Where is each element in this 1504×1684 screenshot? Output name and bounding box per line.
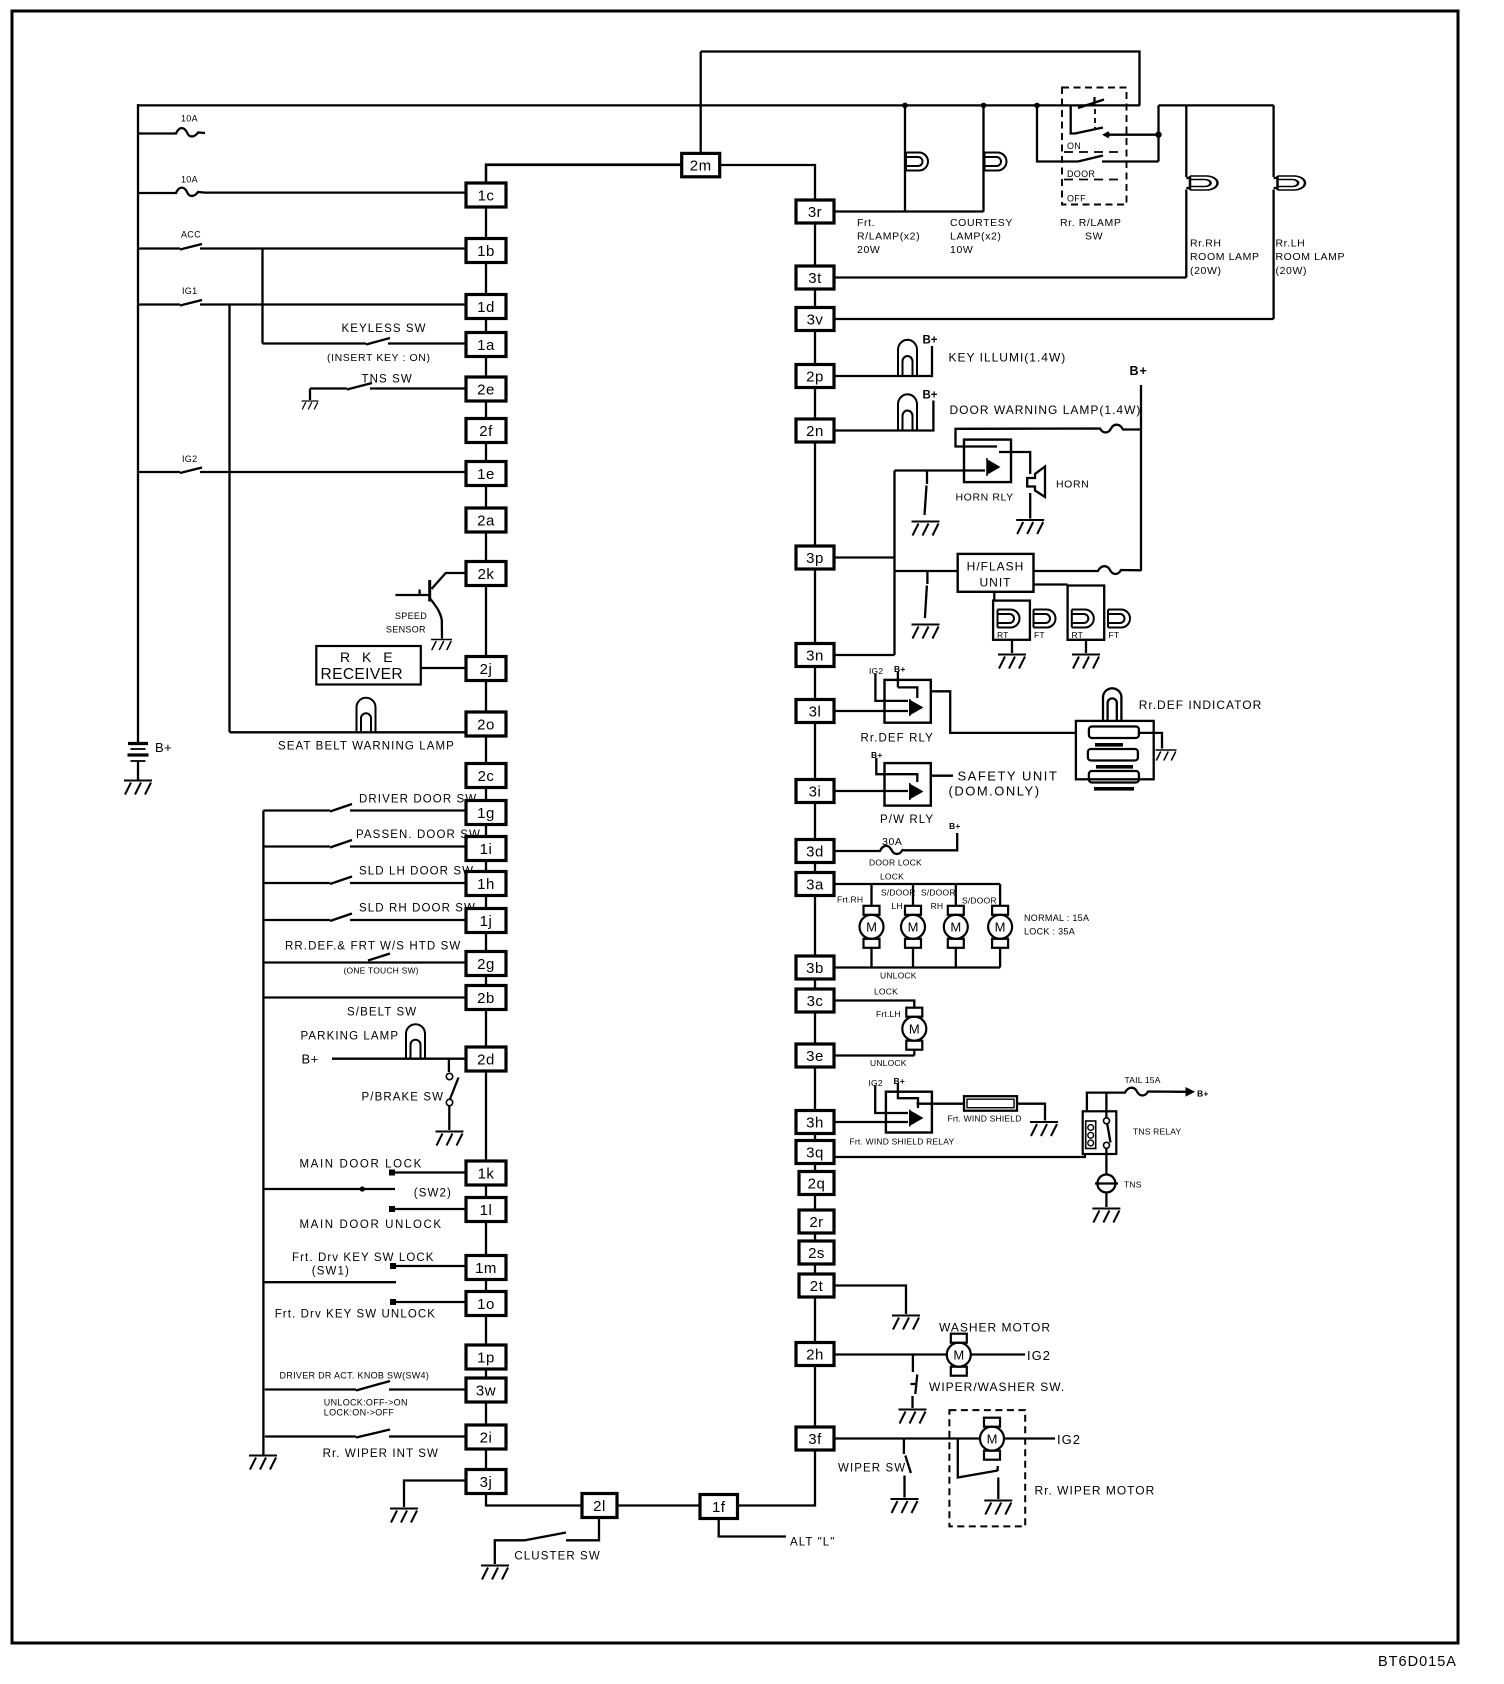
wire: DOOR output: [1102, 160, 1159, 162]
svg-text:20W: 20W: [857, 244, 880, 256]
wire: 3f to wiper motor: [834, 1437, 980, 1439]
svg-text:1f: 1f: [712, 1499, 726, 1516]
wire: H/FLASH feed from riser: [895, 570, 958, 572]
svg-text:LH: LH: [892, 901, 903, 911]
wire: TAIL 15A rail with fuse bump: [1087, 1088, 1186, 1112]
ground (lamp group1): [998, 655, 1026, 669]
svg-text:2d: 2d: [477, 1052, 495, 1069]
Rr.DEF relay coil arrow: [910, 699, 922, 716]
wiper switch: [904, 1439, 911, 1498]
svg-text:Frt. WIND SHIELD: Frt. WIND SHIELD: [948, 1114, 1022, 1124]
connector 3i: [796, 780, 834, 803]
key illumi bulb: [898, 340, 917, 375]
switch blade mid: [1071, 105, 1103, 133]
Rr R/LAMP SW dashed box: [1062, 88, 1127, 205]
wire: horn relay coil feed with fuse bump: [956, 425, 1142, 447]
svg-text:IG1: IG1: [182, 286, 197, 296]
svg-text:3q: 3q: [806, 1145, 824, 1162]
ground (2t): [892, 1316, 920, 1330]
svg-text:1k: 1k: [478, 1166, 495, 1183]
svg-text:MAIN DOOR LOCK: MAIN DOOR LOCK: [300, 1159, 423, 1171]
svg-text:IG2: IG2: [1027, 1348, 1051, 1363]
1o wire: [393, 1301, 466, 1303]
wire: horn to ground: [1029, 493, 1031, 519]
door lock motor Frt.RH: [860, 906, 884, 948]
horn relay U-HORN box: [964, 440, 1011, 483]
wire: 2p key illumi: [834, 346, 932, 376]
junction dot (door feed): [1034, 103, 1040, 109]
connector 1h: [466, 872, 506, 896]
wire: 2m top riser: [700, 52, 702, 154]
svg-text:LOCK : 35A: LOCK : 35A: [1024, 927, 1075, 937]
svg-text:3w: 3w: [476, 1383, 496, 1400]
flasher lamp RT 2: [1072, 610, 1094, 628]
svg-text:TNS SW: TNS SW: [362, 374, 413, 386]
svg-text:HORN: HORN: [1056, 479, 1089, 491]
svg-text:Rr.DEF RLY: Rr.DEF RLY: [861, 733, 934, 745]
svg-text:ON: ON: [1067, 141, 1081, 151]
connector 3f: [796, 1427, 834, 1450]
connector 2c: [466, 764, 506, 788]
connector 3c: [796, 989, 834, 1012]
svg-text:UNLOCK:OFF->ON: UNLOCK:OFF->ON: [324, 1398, 408, 1408]
Rr.LH room lamp: [1278, 176, 1306, 190]
svg-text:1a: 1a: [477, 337, 495, 354]
svg-text:10A: 10A: [181, 114, 198, 124]
svg-text:COURTESY: COURTESY: [950, 217, 1013, 229]
svg-text:3v: 3v: [807, 312, 824, 329]
svg-text:B+: B+: [894, 1076, 906, 1086]
connector 2e: [466, 377, 506, 401]
svg-text:KEY ILLUMI(1.4W): KEY ILLUMI(1.4W): [949, 351, 1067, 365]
svg-text:1o: 1o: [477, 1296, 495, 1313]
wire: bottom loop 3j to 2l to 1f: [486, 1494, 582, 1506]
connector 2k: [466, 562, 506, 586]
wire: lamp feed line right portion: [1159, 104, 1274, 106]
svg-text:3r: 3r: [808, 204, 822, 221]
svg-text:2s: 2s: [808, 1245, 825, 1262]
wire: B+ rail (right): [1140, 385, 1142, 571]
wire: flasher lamp group2 feed: [1034, 583, 1068, 585]
wire: motor to 3e UNLOCK: [834, 1050, 914, 1056]
wire: ON output with arrowhead: [1105, 132, 1159, 137]
door warning bulb: [898, 394, 917, 429]
wire: left door-switch bus: [262, 811, 264, 1456]
wire: 1f down to ALT "L": [719, 1518, 786, 1537]
TNS relay box: [1083, 1111, 1117, 1154]
connector 2m: [682, 153, 720, 176]
svg-text:2f: 2f: [479, 423, 493, 440]
svg-text:SLD RH DOOR SW: SLD RH DOOR SW: [359, 903, 476, 915]
svg-text:2o: 2o: [477, 717, 495, 734]
connector 1k: [466, 1161, 506, 1185]
svg-text:(20W): (20W): [1276, 265, 1308, 277]
svg-text:B+: B+: [923, 335, 938, 347]
connector 1e: [466, 462, 506, 486]
svg-text:LOCK:ON->OFF: LOCK:ON->OFF: [324, 1408, 395, 1418]
svg-text:2m: 2m: [690, 158, 712, 175]
svg-text:PASSEN. DOOR SW: PASSEN. DOOR SW: [356, 829, 481, 841]
RKE receiver box: [316, 646, 421, 685]
wire: 2t to ground: [834, 1286, 906, 1315]
svg-text:1m: 1m: [475, 1260, 497, 1277]
flasher lamp group2 box: [1068, 586, 1105, 640]
dashed detent line DOOR: [1064, 179, 1124, 181]
connector 2r: [799, 1210, 834, 1233]
indicator bar 2: [1088, 749, 1138, 761]
wire: motor drop 2: [912, 884, 914, 906]
svg-text:1l: 1l: [480, 1202, 493, 1219]
svg-text:S/DOOR: S/DOOR: [921, 887, 956, 897]
svg-text:Rr.DEF INDICATOR: Rr.DEF INDICATOR: [1139, 698, 1263, 712]
svg-text:3l: 3l: [809, 704, 822, 721]
1m wire: [393, 1265, 466, 1267]
svg-text:M: M: [908, 920, 919, 935]
wire: B+ lead (WS relay): [898, 1083, 918, 1108]
junction dot (courtesy): [981, 103, 987, 109]
svg-text:DOOR: DOOR: [1067, 169, 1095, 179]
wire: 3q into TNS relay: [834, 1154, 1085, 1157]
switch blade DOOR: [1078, 156, 1103, 162]
dashed detent line ON: [1064, 151, 1124, 153]
wire: 3c LOCK to motor: [834, 1001, 914, 1009]
svg-text:(SW1): (SW1): [312, 1266, 350, 1278]
Frt wind shield heater resistor: [964, 1096, 1017, 1111]
svg-text:M: M: [866, 920, 877, 935]
svg-text:Frt.RH: Frt.RH: [837, 895, 863, 905]
connector 2g: [466, 952, 506, 976]
svg-text:SLD LH DOOR SW: SLD LH DOOR SW: [359, 866, 474, 878]
H/FLASH unit box: [958, 554, 1034, 592]
Rr wiper motor dashed box: [949, 1410, 1025, 1526]
svg-text:RECEIVER: RECEIVER: [321, 666, 403, 683]
horn switch: [925, 471, 928, 516]
ground (wiper/washer sw): [899, 1410, 927, 1424]
svg-text:M: M: [995, 920, 1006, 935]
svg-text:2c: 2c: [478, 768, 495, 785]
TNS relay coil: [1086, 1121, 1096, 1149]
svg-text:IG2: IG2: [1057, 1432, 1081, 1447]
wire: IG1 branch down to seat-belt row: [228, 305, 230, 733]
WS relay coil arrow: [910, 1110, 922, 1127]
wire: 2h to washer motor: [834, 1353, 946, 1355]
wire: 3l into relay: [834, 710, 908, 712]
2i wire + Rr wiper int switch: [265, 1430, 466, 1438]
door lock motor S/DOOR: [988, 906, 1012, 948]
fuse IG2: [138, 468, 466, 474]
horn relay coil arrow: [987, 458, 999, 476]
Frt wind shield relay box: [886, 1092, 932, 1133]
seat belt warning lamp wire: [230, 731, 467, 733]
svg-text:3e: 3e: [806, 1048, 824, 1065]
wire: wiper motor to IG2: [1005, 1437, 1056, 1439]
svg-text:UNLOCK: UNLOCK: [870, 1058, 907, 1068]
flasher lamp group1 box: [993, 601, 1030, 640]
Frt R/LAMP lamp: [906, 153, 928, 171]
svg-text:3a: 3a: [806, 877, 824, 894]
connector 1i: [466, 837, 506, 861]
ground (P/BRAKE SW): [436, 1132, 464, 1146]
TNS relay contact: [1104, 1118, 1110, 1124]
wire: Rr.LH room lamp drop + 3v wire: [834, 105, 1274, 319]
ground (TNS lamp): [1092, 1209, 1120, 1223]
switch blade ON (crossing feed line): [1078, 97, 1104, 108]
svg-text:OFF: OFF: [1067, 194, 1086, 204]
ground (battery): [124, 781, 152, 795]
svg-text:2i: 2i: [480, 1430, 493, 1447]
wire: TNS lamp to ground: [1105, 1193, 1107, 1208]
connector 1l: [466, 1198, 506, 1222]
svg-text:RR.DEF.& FRT W/S HTD SW: RR.DEF.& FRT W/S HTD SW: [285, 941, 461, 953]
flasher lamp RT 1: [998, 610, 1020, 628]
connector 3b: [796, 956, 834, 979]
wire: flasher lamp group1 feed: [993, 592, 995, 601]
ground (flasher switch): [912, 625, 940, 639]
junction square 1m: [390, 1263, 396, 1269]
svg-text:LOCK: LOCK: [874, 987, 898, 997]
fuse ACC: [138, 244, 466, 250]
wire: group2 ground stub: [1085, 640, 1087, 653]
svg-text:3p: 3p: [806, 550, 824, 567]
svg-text:PARKING LAMP: PARKING LAMP: [301, 1031, 400, 1043]
junction dot (switch output): [1155, 132, 1161, 138]
svg-text:HORN RLY: HORN RLY: [956, 492, 1014, 504]
indicator label smudge 2: [1096, 765, 1133, 769]
TNS lamp: [1097, 1175, 1115, 1193]
connector 2n: [796, 419, 834, 442]
svg-text:FT: FT: [1034, 630, 1045, 640]
connector 1m: [466, 1256, 506, 1280]
svg-text:Frt. Drv KEY SW UNLOCK: Frt. Drv KEY SW UNLOCK: [275, 1309, 436, 1321]
keyless SW wire + switch: [263, 338, 467, 345]
svg-text:P/BRAKE SW: P/BRAKE SW: [362, 1092, 445, 1104]
connector 2i: [466, 1425, 506, 1449]
svg-text:2q: 2q: [808, 1176, 826, 1193]
3j wire to ground: [404, 1481, 466, 1508]
B+ bus wire (left vertical): [137, 104, 139, 743]
fuse 10A (row 1): [138, 128, 205, 136]
svg-text:IG2: IG2: [869, 666, 883, 676]
svg-text:BT6D015A: BT6D015A: [1378, 1654, 1457, 1670]
svg-text:Rr. WIPER INT SW: Rr. WIPER INT SW: [323, 1448, 439, 1460]
svg-text:3j: 3j: [480, 1474, 493, 1491]
wire: 2n door warning lamp: [834, 401, 933, 431]
svg-text:(ONE TOUCH SW): (ONE TOUCH SW): [344, 966, 419, 976]
washer motor: [947, 1334, 971, 1376]
svg-text:B+: B+: [155, 740, 172, 755]
wire: 3n stub: [834, 654, 895, 656]
svg-text:2n: 2n: [806, 423, 824, 440]
connector 2s: [799, 1241, 834, 1264]
svg-text:KEYLESS SW: KEYLESS SW: [342, 323, 427, 335]
wire: top loop line: [701, 52, 1140, 106]
fuse IG1: [138, 300, 466, 306]
svg-text:1p: 1p: [477, 1350, 495, 1367]
svg-text:SW: SW: [1085, 231, 1103, 243]
SLD LH door SW wire: [263, 877, 466, 885]
indicator bulb: [1103, 688, 1121, 721]
connector 1j: [466, 909, 506, 933]
indicator label smudge 3: [1094, 787, 1134, 791]
svg-text:1d: 1d: [477, 299, 495, 316]
1l wire: [392, 1208, 466, 1210]
svg-text:DOOR WARNING LAMP(1.4W): DOOR WARNING LAMP(1.4W): [950, 403, 1142, 417]
svg-text:3n: 3n: [806, 648, 824, 665]
svg-text:Rr. WIPER MOTOR: Rr. WIPER MOTOR: [1035, 1484, 1156, 1498]
ground (heater): [1030, 1122, 1058, 1136]
svg-text:1c: 1c: [478, 188, 495, 205]
svg-text:B+: B+: [871, 750, 883, 760]
parking lamp / 2d wire: [332, 1058, 466, 1060]
ground (indicator): [1156, 750, 1177, 761]
svg-text:P/W RLY: P/W RLY: [880, 814, 934, 826]
connector 3q: [796, 1141, 834, 1164]
svg-text:S/DOOR: S/DOOR: [962, 895, 997, 905]
wire: (SW2) row: [263, 1188, 395, 1190]
ground (horn switch): [912, 522, 940, 536]
B+ arrowhead: [1186, 1088, 1194, 1096]
wire: contact to TNS lamp: [1105, 1148, 1107, 1174]
lamp lead stubs Rr.LH: [1274, 178, 1278, 188]
svg-text:R K E: R K E: [340, 649, 397, 665]
indicator bar 1: [1089, 727, 1139, 739]
svg-text:S/BELT SW: S/BELT SW: [347, 1007, 417, 1019]
svg-text:B+: B+: [1197, 1089, 1209, 1099]
flasher switch: [925, 571, 928, 618]
svg-text:2e: 2e: [477, 382, 495, 399]
wire: 3h into relay: [834, 1121, 908, 1123]
svg-text:TAIL 15A: TAIL 15A: [1125, 1075, 1161, 1085]
cluster SW wire: [495, 1517, 599, 1564]
svg-text:2l: 2l: [593, 1498, 606, 1515]
svg-text:RT: RT: [1072, 630, 1084, 640]
connector 3t: [796, 266, 834, 289]
ground (cluster SW): [481, 1566, 509, 1580]
ground (speed sensor): [431, 640, 452, 651]
svg-text:IG2: IG2: [182, 454, 197, 464]
flasher lamp FT 2: [1108, 610, 1130, 628]
svg-text:Rr.RH: Rr.RH: [1190, 238, 1222, 250]
svg-text:TNS RELAY: TNS RELAY: [1133, 1127, 1182, 1137]
connector 3j: [466, 1470, 506, 1494]
connector 1o: [466, 1292, 506, 1316]
wire: B+ lead (P/W): [876, 758, 917, 782]
connector 1b: [466, 239, 506, 263]
ground (TNS SW): [302, 401, 319, 409]
connector 3p: [796, 546, 834, 569]
battery B+: [128, 742, 148, 745]
wire: horn relay contact to horn: [999, 452, 1030, 474]
connector 2l: [582, 1494, 617, 1518]
svg-text:2t: 2t: [810, 1278, 824, 1295]
wire: ACC branch down to keyless: [261, 249, 263, 344]
svg-text:2j: 2j: [480, 661, 493, 678]
svg-text:WIPER SW: WIPER SW: [838, 1463, 906, 1475]
svg-text:ROOM LAMP: ROOM LAMP: [1190, 251, 1260, 263]
svg-text:ALT "L": ALT "L": [790, 1537, 836, 1549]
connector 3e: [796, 1044, 834, 1067]
ground (horn): [1016, 520, 1044, 534]
junction square 1l: [389, 1206, 395, 1212]
svg-text:3i: 3i: [809, 784, 822, 801]
horn speaker: [1027, 467, 1045, 498]
RR.DEF & FRT W/S HTD SW wire (one touch): [263, 954, 466, 963]
svg-text:30A: 30A: [882, 836, 902, 848]
1k wire: [392, 1171, 466, 1173]
wire: 2m to 1c column: [486, 165, 682, 184]
svg-text:LAMP(x2): LAMP(x2): [950, 231, 1001, 243]
connector 2f: [466, 419, 506, 443]
svg-text:SAFETY UNIT: SAFETY UNIT: [958, 769, 1059, 784]
wire: motor drop 1: [870, 884, 872, 906]
svg-text:SEAT BELT WARNING LAMP: SEAT BELT WARNING LAMP: [278, 741, 455, 753]
courtesy lamp: [985, 153, 1007, 171]
svg-text:(DOM.ONLY): (DOM.ONLY): [949, 784, 1041, 799]
svg-text:B+: B+: [949, 821, 961, 831]
svg-text:2h: 2h: [806, 1347, 824, 1364]
svg-text:ROOM LAMP: ROOM LAMP: [1276, 251, 1346, 263]
svg-text:LOCK: LOCK: [880, 872, 904, 882]
wire: top feed line to right (net from bus top): [138, 104, 1140, 106]
flasher lamp FT 1: [1034, 610, 1056, 628]
svg-text:SPEED: SPEED: [395, 611, 427, 621]
connector 3a: [796, 873, 834, 896]
svg-text:ACC: ACC: [181, 230, 201, 240]
svg-text:3t: 3t: [808, 270, 822, 287]
svg-text:2g: 2g: [477, 956, 495, 973]
Rr wiper motor: [980, 1418, 1004, 1460]
3w wire + driver dr act knob switch: [265, 1381, 466, 1391]
ground (lamp group2): [1072, 655, 1100, 669]
connector 3v: [796, 308, 834, 331]
connector 3l: [796, 700, 834, 723]
connector 1c: [466, 183, 506, 207]
svg-text:UNLOCK: UNLOCK: [880, 971, 917, 981]
Rr.DEF indicator outer box: [1076, 721, 1154, 779]
svg-text:1i: 1i: [480, 841, 493, 858]
svg-text:M: M: [987, 1432, 998, 1447]
connector 3w: [466, 1378, 506, 1402]
wire: 3p stub: [834, 556, 895, 558]
TNS SW wire + switch: [310, 383, 466, 400]
connector 2t: [799, 1274, 834, 1297]
wire: motor drop 4: [999, 884, 1001, 906]
svg-text:DRIVER DOOR SW: DRIVER DOOR SW: [359, 794, 477, 806]
Rr.RH room lamp: [1190, 176, 1218, 190]
connector 2d: [466, 1047, 506, 1071]
svg-text:H/FLASH: H/FLASH: [967, 560, 1025, 574]
wire: heater to ground: [1017, 1104, 1045, 1121]
wire: motor drop 3: [955, 884, 957, 906]
svg-text:10W: 10W: [950, 244, 973, 256]
wiper/washer switch: [911, 1355, 918, 1409]
connector 1d: [466, 295, 506, 319]
junction dot (Frt R/LAMP): [902, 103, 908, 109]
junction square 1o: [390, 1299, 396, 1305]
S/BELT SW wire: [263, 996, 466, 998]
wire: indicator right hook to ground: [1139, 733, 1162, 749]
wire: riser 3p/3n/hflash: [893, 471, 895, 656]
RKE receiver wire to 2j: [421, 667, 466, 669]
svg-text:2p: 2p: [806, 369, 824, 386]
P/BRAKE SW drop: [448, 1059, 450, 1072]
svg-text:1e: 1e: [477, 466, 495, 483]
svg-text:Frt. WIND SHIELD RELAY: Frt. WIND SHIELD RELAY: [850, 1137, 955, 1147]
svg-text:RT: RT: [997, 630, 1009, 640]
svg-text:IG2: IG2: [869, 1078, 883, 1088]
svg-text:WASHER MOTOR: WASHER MOTOR: [939, 1321, 1051, 1335]
passen. door SW wire: [263, 840, 466, 848]
